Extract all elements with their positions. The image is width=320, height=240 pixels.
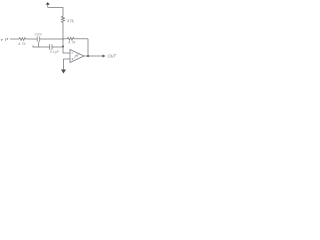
resistor R3 feedback <box>63 37 88 40</box>
svg-text:OUT: OUT <box>108 54 117 59</box>
resistor R2 <box>19 38 26 41</box>
output arrow <box>103 55 106 58</box>
wire branch to C2 <box>39 46 50 48</box>
wire branch down from C1 <box>33 42 39 48</box>
node B junction <box>62 46 64 48</box>
power supply V+ <box>46 2 50 8</box>
node A junction <box>62 38 63 39</box>
svg-text:0.1µF: 0.1µF <box>50 50 60 54</box>
svg-text:Cint: Cint <box>35 32 43 37</box>
svg-text:4.7k: 4.7k <box>18 41 27 46</box>
svg-text:47k: 47k <box>67 18 75 23</box>
capacitor C2 <box>50 44 52 50</box>
wire input to R2 <box>10 38 19 40</box>
wire power to R1 <box>48 8 63 15</box>
wire C2 to node B <box>52 46 63 48</box>
resistor R1 <box>61 14 64 24</box>
capacitor C1 Cint <box>37 37 40 42</box>
svg-text:4.7k: 4.7k <box>68 40 77 45</box>
wire node A to op-amp inverting input <box>63 39 70 53</box>
op-amp U1 <box>70 50 84 63</box>
wire R1 to node A <box>62 24 64 39</box>
ground <box>61 70 66 74</box>
node C junction output <box>87 55 89 57</box>
wire C1 to node A <box>40 38 63 40</box>
input terminal v in <box>1 38 8 41</box>
wire op-amp non-inverting input to ground <box>64 59 71 70</box>
wire output <box>84 55 103 57</box>
wire feedback down to output node <box>87 39 89 56</box>
wire R2 to C1 <box>26 38 38 40</box>
